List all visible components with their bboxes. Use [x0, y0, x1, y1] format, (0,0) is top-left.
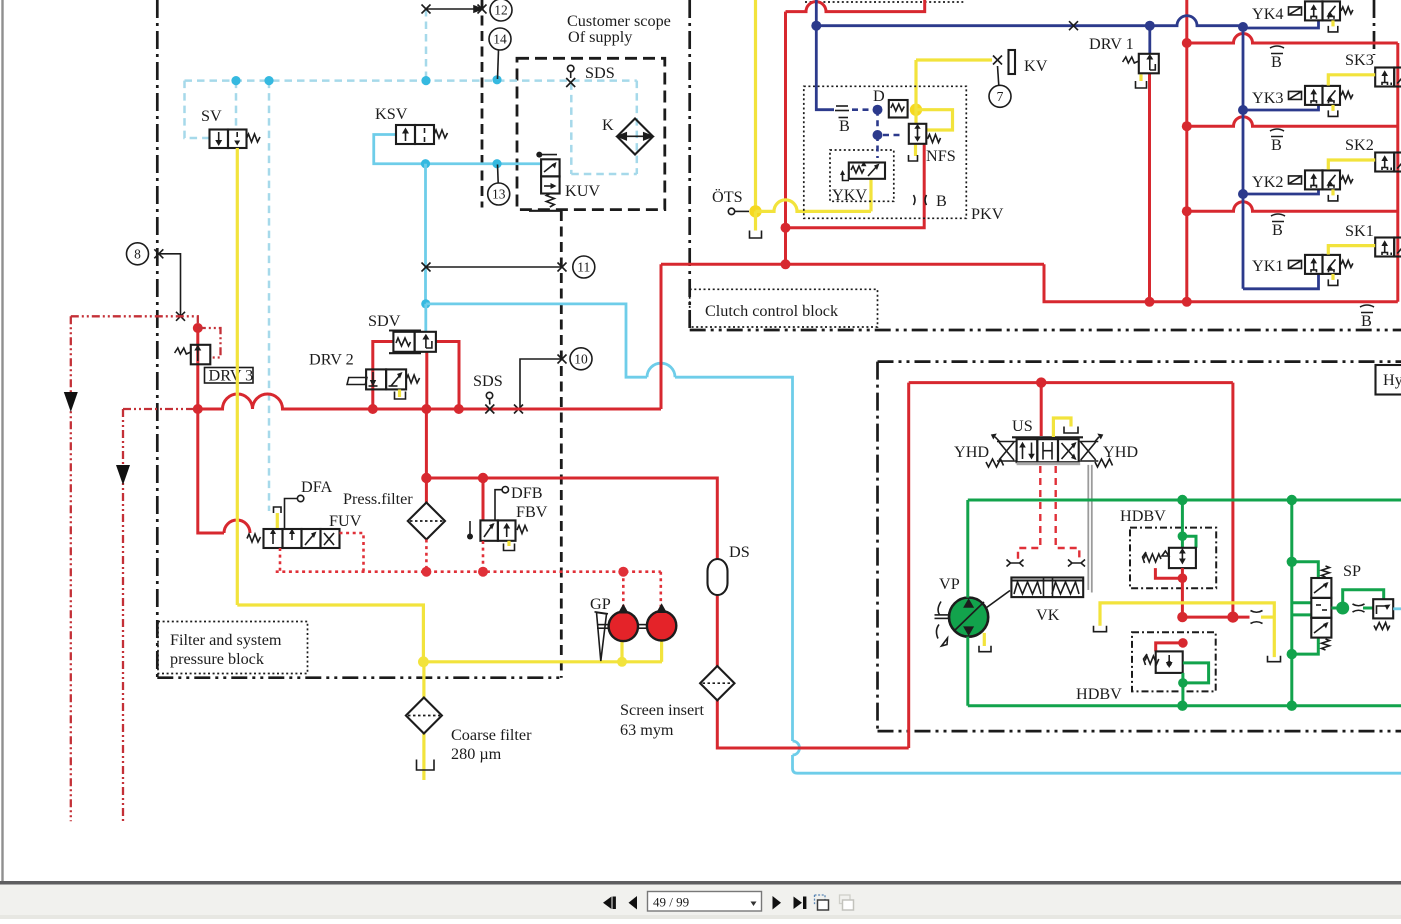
wire: red riser x=661 — [660, 264, 663, 409]
svg-text:YKV: YKV — [832, 186, 867, 204]
measure line 10 — [514, 355, 567, 414]
wire: navy PKV drop — [816, 26, 834, 110]
wire: red FBV drop — [482, 478, 485, 520]
svg-text:ÖTS: ÖTS — [712, 188, 743, 206]
pump GP 1 — [609, 612, 638, 641]
wire: red dotted FBV bottom — [482, 541, 485, 572]
tank coarse filter — [417, 760, 435, 771]
wire: navy dashes to D — [852, 108, 872, 111]
svg-text:KV: KV — [1024, 57, 1048, 75]
wire: navy YK2 branch — [1243, 190, 1319, 194]
wire: yellow KV riser — [914, 60, 917, 110]
junction: green dot in box — [1178, 531, 1188, 541]
grey link lines US to VK — [1087, 465, 1089, 590]
valve YK4 — [1289, 1, 1353, 32]
valve SP — [1311, 566, 1331, 650]
junction: big green dot — [1336, 602, 1349, 615]
KV x mark — [993, 56, 1002, 86]
svg-text:B: B — [1272, 221, 1283, 239]
wire: cyan KSV loop — [374, 135, 541, 164]
test point 11 — [573, 256, 595, 278]
throttle and B label — [914, 195, 927, 205]
wire: red corner to lower bus — [1044, 264, 1398, 302]
boundary: dashed vertical upper (x=482) — [481, 0, 484, 208]
svg-text:GP: GP — [590, 595, 611, 613]
boundary: dotted top line — [805, 1, 963, 3]
wire: red bus y=264.3 — [661, 263, 1044, 266]
svg-text:YK1: YK1 — [1252, 257, 1283, 275]
junction: red dot US branch — [1036, 377, 1046, 387]
boundary: clutch block right dash-dot stub — [1373, 0, 1376, 55]
valve DRV2 — [347, 369, 420, 389]
wire: lightblue dashed box bottom — [571, 173, 637, 176]
svg-text:B: B — [1361, 312, 1372, 330]
svg-text:DRV 1: DRV 1 — [1089, 35, 1134, 53]
wire: yellow SV drop x=237.3 — [236, 148, 239, 605]
svg-text:13: 13 — [492, 187, 506, 202]
wire: cyan bus to right — [426, 304, 647, 377]
wire: red bus y=478 to DS — [426, 478, 717, 559]
svg-text:PKV: PKV — [971, 205, 1004, 223]
GP drive symbol — [597, 613, 607, 662]
wire: red drop to FUV — [198, 409, 224, 533]
svg-text:NFS: NFS — [926, 147, 956, 165]
valve YK1 — [1289, 255, 1353, 286]
junction: cyan dot — [421, 159, 430, 168]
wire: green VP riser — [966, 500, 969, 598]
label B bar y=211 — [1271, 214, 1285, 239]
arrow on line 2 — [116, 465, 130, 485]
wire: green HDBV1 right loop — [1182, 536, 1196, 548]
wire: yellow YKV drop — [869, 179, 872, 212]
svg-text:8: 8 — [134, 246, 141, 261]
wire: red dotted filter bottom — [425, 540, 428, 572]
wire: navy bus y=25.7 with hump over red x=1187 — [816, 16, 1243, 26]
toolbar top line — [0, 881, 1401, 885]
tank FBV (yellow) — [507, 541, 510, 546]
valve SDV — [389, 331, 436, 354]
wire: navy YK4 branch — [1243, 21, 1319, 28]
tank yellow right — [1268, 656, 1281, 662]
left end: X box + spring — [997, 442, 1017, 462]
wire: red mid horizontal — [1182, 616, 1249, 619]
grey bar under US — [1017, 462, 1081, 465]
wire: yellow OTS vertical — [754, 0, 757, 211]
FUV pilot bracket — [274, 507, 282, 513]
svg-text:YHD: YHD — [954, 443, 989, 461]
wire: green SP right — [1331, 607, 1343, 610]
wire: green pilot loop — [1343, 590, 1384, 608]
svg-text:HDBV: HDBV — [1076, 685, 1122, 703]
check valve D — [889, 100, 908, 118]
svg-text:10: 10 — [574, 351, 588, 366]
junction: cyan dot at SDV branch — [421, 299, 430, 308]
wire: yellow NFS top feed — [914, 110, 917, 124]
junction: red dot HDBV2 — [1178, 638, 1188, 648]
svg-text:SP: SP — [1343, 562, 1361, 580]
coarse filter diamond — [406, 698, 442, 734]
boundary: clutch block left dash-dot — [688, 0, 691, 330]
junction: navy dot DRV1 — [1145, 21, 1155, 31]
svg-text:Coarse filter: Coarse filter — [451, 726, 532, 744]
wire: cyan hump around red y=748 — [793, 741, 800, 755]
springs under ends — [986, 459, 1004, 467]
customer scope box — [517, 58, 665, 209]
wire: red bus y=409 with humps — [198, 394, 661, 409]
label B bar bottom right — [1360, 305, 1374, 330]
test point 7 — [989, 85, 1011, 107]
KV gauge connector — [1009, 50, 1016, 74]
wire: cyan hump over red x=661 — [647, 363, 675, 377]
tank yellow left — [1094, 626, 1107, 632]
wire: red hydraulic riser x=908.7 — [907, 383, 910, 748]
wire: yellow to GP bus — [237, 605, 423, 662]
wire: cyan vertical to SDV — [424, 164, 427, 304]
snapshot icon — [815, 895, 826, 904]
wire: red HDBV1 bottom loop — [1155, 568, 1182, 578]
valve YK2 — [1289, 170, 1353, 201]
junction: red dot PKV — [781, 223, 791, 233]
junction: green dot HDBV2 — [1178, 678, 1188, 688]
boundary: hydraulic block bottom dash-dot — [878, 730, 1401, 733]
navy X mark — [1069, 21, 1078, 30]
filter K — [617, 119, 653, 155]
page left edge — [1, 0, 3, 881]
svg-text:FBV: FBV — [516, 503, 548, 521]
wire: red filter top stub — [425, 478, 428, 503]
label: filter block box — [158, 622, 308, 674]
wire: red right edge riser — [1396, 43, 1399, 302]
GP shaft — [597, 624, 610, 626]
wire: lightblue dashed drop x=426 (test point 12) — [425, 9, 428, 81]
wire: red top hump line — [786, 0, 925, 12]
svg-text:DRV 2: DRV 2 — [309, 351, 354, 369]
svg-text:12: 12 — [494, 3, 508, 18]
wire: red vertical from DRV1 — [1148, 73, 1151, 302]
wire: red filter feed x=426 — [425, 409, 428, 478]
test point 10 — [570, 348, 592, 370]
valve US body — [1017, 439, 1038, 462]
svg-text:YK2: YK2 — [1252, 173, 1283, 191]
wire: lightblue dashed box right vertical — [636, 81, 639, 174]
wire: green HDBV2 drop — [1181, 673, 1184, 706]
PKV dotted box — [804, 86, 967, 218]
wire: red B-line y=126.2 — [1187, 117, 1398, 127]
SDS test connection lower — [485, 392, 494, 413]
svg-text:49 / 99: 49 / 99 — [653, 895, 689, 910]
valve DRV3 — [175, 345, 211, 365]
label DRV 3 boxed — [205, 368, 254, 384]
svg-text:FUV: FUV — [329, 512, 362, 530]
valve SK3 — [1375, 68, 1401, 87]
valve HDBV1 — [1143, 548, 1196, 568]
svg-text:SDS: SDS — [473, 372, 503, 390]
wire: red dotted FUV right branch — [340, 533, 364, 572]
junction: red dots on dotted bus — [421, 567, 431, 577]
wire: yellow pump risers — [620, 641, 623, 662]
test point 13 — [488, 183, 510, 205]
OTS test connection — [728, 208, 734, 214]
wire: yellow bus y=602.9 — [1100, 603, 1274, 657]
wire: green VP down — [966, 637, 969, 706]
wire: navy vertical x=1243 — [1242, 26, 1245, 289]
junction: red dot x=1233 — [1227, 612, 1238, 623]
wire: green SP bottom branch — [1292, 638, 1319, 655]
DFA test connection — [285, 495, 304, 528]
svg-text:B: B — [1271, 53, 1282, 71]
svg-text:Clutch control block: Clutch control block — [705, 302, 839, 320]
wire: lightblue dashed long drop x=269 — [268, 81, 271, 511]
throttle marks VK left — [1007, 560, 1024, 567]
svg-text:pressure block: pressure block — [170, 650, 265, 668]
wire: green SP riser — [1290, 500, 1293, 706]
arrow on line 1 — [64, 392, 78, 412]
valve DRV1 — [1123, 54, 1159, 74]
valve SK2 — [1375, 153, 1401, 172]
wire: red SDV loop left — [373, 342, 394, 410]
wire: cyan corner to bottom bus — [793, 755, 1401, 773]
tank DRV2 (yellow) — [398, 390, 401, 398]
svg-text:Hy: Hy — [1383, 371, 1401, 389]
wire: red DRV3 riser — [196, 328, 199, 409]
wire: red HDBV2 top loop — [1156, 643, 1183, 652]
valve SV — [210, 130, 261, 149]
tank NFS — [909, 155, 918, 161]
svg-text:Press.filter: Press.filter — [343, 490, 413, 508]
svg-text:VP: VP — [939, 575, 960, 593]
svg-text:280 µm: 280 µm — [451, 745, 502, 763]
wire: red dashdot horizontal y=409 — [123, 408, 198, 410]
relief valve box — [1373, 599, 1393, 629]
wire: green top bus y=500 — [968, 499, 1401, 502]
svg-text:YK4: YK4 — [1252, 5, 1283, 23]
cell3 crossed arrows — [1062, 443, 1076, 459]
HDBV2 dashdot box — [1132, 632, 1216, 691]
wire from 14 to bus — [498, 50, 499, 79]
wire: navy dash to NFS — [883, 134, 903, 137]
test point 14 — [489, 28, 511, 50]
boundary: filter block bottom dash-dot — [157, 676, 562, 679]
accumulator DS — [708, 559, 728, 595]
wire: red screen to bottom bus — [717, 700, 908, 749]
wire: green HDBV1 drop — [1181, 500, 1184, 548]
wire: yellow KV horizontal — [916, 58, 992, 61]
wire: yellow below coarse filter — [422, 734, 425, 781]
throttle marks VK right — [1068, 560, 1085, 567]
wire: red SDV loop right — [436, 342, 459, 410]
svg-text:B: B — [936, 192, 947, 210]
wire: green bottom bus y=705.7 — [968, 704, 1401, 707]
boundary: filter block left dash-dot — [156, 0, 159, 678]
wire: cyan stub right — [1393, 607, 1401, 610]
junction: green dots top bus — [1177, 495, 1187, 505]
svg-text:B: B — [839, 117, 850, 135]
snapshot icon disabled — [840, 895, 851, 904]
wire: red dotted GP drops — [622, 572, 625, 611]
boundary: dashed vertical lower (x=561) — [560, 211, 563, 678]
wire: yellow SK3 — [1328, 75, 1375, 86]
junction: cyan dot — [492, 159, 501, 168]
valve KSV — [396, 125, 448, 144]
svg-text:KUV: KUV — [565, 182, 600, 200]
tank DRV1 — [1139, 75, 1142, 82]
junction: red dots on lower bus — [1145, 297, 1155, 307]
svg-text:7: 7 — [997, 89, 1004, 104]
wire: navy YK3 branch — [1243, 105, 1319, 110]
junction: navy dot — [811, 21, 821, 31]
svg-text:US: US — [1012, 417, 1033, 435]
wire: lightblue dashed left drop — [185, 81, 210, 138]
test point 8 — [127, 243, 149, 265]
wire: red B-line y=43 — [1187, 34, 1398, 44]
VP pump — [935, 591, 1011, 647]
valve KUV — [529, 152, 561, 211]
valve NFS — [909, 124, 941, 144]
boundary: hydraulic block left dash-dot — [876, 362, 879, 731]
svg-text:SK1: SK1 — [1345, 222, 1374, 240]
wire: red B-line y=211.2 — [1187, 202, 1398, 212]
wire: navy DRV1 drop — [1148, 26, 1151, 54]
junction dots on dashed bus — [231, 76, 240, 85]
junction: yellow dot under pump1 — [617, 657, 627, 667]
junction: green dots SP — [1287, 557, 1297, 567]
HDBV1 dashdot box — [1130, 528, 1216, 589]
wire: yellow GP bus — [423, 660, 662, 663]
VK actuator — [1011, 578, 1083, 598]
tank US (yellow) — [1053, 418, 1071, 437]
wire: yellow OTS stub down — [754, 211, 757, 230]
wire: green SP top branch — [1292, 562, 1319, 578]
wire: red hump over yellow at FUV feed — [224, 520, 250, 533]
test point 12 — [490, 0, 512, 21]
junction: navy dot D — [873, 105, 883, 115]
valve YKV — [840, 161, 885, 180]
svg-text:DS: DS — [729, 543, 750, 561]
wire: red DS to screen — [716, 595, 719, 667]
first page button — [603, 897, 612, 910]
svg-text:KSV: KSV — [375, 105, 408, 123]
wire: red NFS drop — [786, 144, 925, 228]
wire: red dashdot DRV3 pilot loop — [198, 328, 221, 358]
pump GP 2 — [647, 611, 676, 640]
toolbar background — [0, 885, 1401, 919]
svg-text:DFB: DFB — [511, 484, 543, 502]
wire: red hydraulic top y=382.6 — [909, 381, 1233, 384]
wire: yellow OTS bus with hump over red — [756, 200, 872, 212]
YKV dotted box — [830, 150, 894, 201]
wire: red HDBV1 drop — [1181, 568, 1184, 617]
wire: lightblue dashed box left vertical — [570, 82, 573, 174]
measure line 12 — [422, 5, 487, 14]
wire: red right drop to HDBV — [1231, 383, 1234, 617]
valve HDBV2 — [1144, 651, 1183, 673]
svg-text:Screen insert: Screen insert — [620, 701, 705, 719]
boundary: hydraulic block top dash-dot — [878, 360, 1401, 363]
throttle marks SP — [1353, 604, 1365, 612]
tank VP (yellow) — [983, 633, 986, 646]
valve SK1 — [1375, 238, 1401, 257]
measure line 11 — [422, 263, 567, 272]
junction: navy dot YK4 — [1238, 22, 1248, 32]
wire: navy dash vertical — [876, 110, 879, 135]
right end: X box + spring — [1079, 442, 1099, 462]
svg-text:SDV: SDV — [368, 312, 401, 330]
svg-text:YHD: YHD — [1103, 443, 1138, 461]
svg-text:YK3: YK3 — [1252, 89, 1283, 107]
wire: yellow NFS loop — [916, 110, 953, 130]
boundary: clutch block bottom dash-dot — [690, 329, 1401, 332]
valve FUV — [247, 529, 340, 549]
wire: green HDBV2 right loop — [1183, 663, 1209, 683]
label Hy box (clipped) — [1376, 365, 1401, 395]
svg-text:DRV 3: DRV 3 — [209, 367, 254, 385]
wire: red PKV vertical x=785.5 — [784, 12, 787, 265]
tank OTS — [750, 231, 762, 239]
wire: red dotted FUV bottom drop — [279, 548, 282, 572]
US valve assembly — [986, 434, 1113, 468]
svg-text:SK2: SK2 — [1345, 136, 1374, 154]
junction: red dot mid — [1177, 612, 1187, 622]
junction: red dot FBV feed — [478, 473, 488, 483]
next page button — [773, 896, 782, 910]
wire: red US drop — [1040, 383, 1043, 436]
junction: navy dot 2 — [873, 130, 883, 140]
junction: yellow dot at NFS — [910, 104, 922, 116]
cell2 H pattern — [1042, 442, 1044, 460]
label B bar y=126 — [1270, 129, 1284, 154]
press filter diamond — [408, 503, 445, 540]
page number box — [648, 892, 762, 912]
svg-text:K: K — [602, 116, 614, 134]
junction: red dot DRV3 top — [193, 323, 203, 333]
svg-text:D: D — [873, 87, 885, 105]
wire: lightblue dashed drop to SV — [235, 81, 238, 130]
junction: red dots on bus — [368, 404, 378, 414]
svg-text:VK: VK — [1036, 606, 1060, 624]
SDS test connection top — [566, 65, 575, 87]
svg-text:SK3: SK3 — [1345, 51, 1374, 69]
wire: red dashdot horizontal y=316 — [71, 316, 198, 325]
junction: navy dots — [1238, 105, 1248, 115]
junction: yellow dot — [418, 656, 429, 667]
label: clutch control block box — [690, 289, 878, 327]
wire from 13 to cyan bus — [497, 165, 500, 184]
wire: cyan stub to SDV pilot — [424, 304, 427, 332]
wire: red dotted bus y=571.7 — [276, 570, 661, 573]
wire: navy dash down to YKV — [876, 135, 879, 158]
junction: yellow dot OTS — [749, 205, 761, 217]
wire: yellow NFS drain — [914, 144, 917, 156]
wire: green to relief — [1363, 607, 1373, 610]
svg-text:HDBV: HDBV — [1120, 507, 1166, 525]
wire: navy YK1 branch — [1243, 274, 1319, 289]
svg-text:B: B — [1271, 136, 1282, 154]
wire: red dashdot left vertical 1 — [70, 316, 72, 821]
svg-text:SDS: SDS — [585, 64, 615, 82]
junction: red dot above press filter — [421, 473, 431, 483]
label B-bar PKV — [839, 117, 849, 119]
wire: lightblue dashed bus — [185, 79, 637, 82]
wire: yellow stub to riser — [1261, 615, 1274, 618]
svg-text:63 mym: 63 mym — [620, 721, 674, 739]
svg-text:14: 14 — [493, 32, 507, 47]
DFB test connection — [495, 487, 508, 521]
cell1 arrows — [1022, 445, 1024, 459]
valve FBV — [467, 520, 528, 540]
wire: red SDV bottom drop — [425, 352, 428, 409]
svg-text:SV: SV — [201, 107, 222, 125]
wire: yellow SK2 — [1328, 160, 1375, 170]
